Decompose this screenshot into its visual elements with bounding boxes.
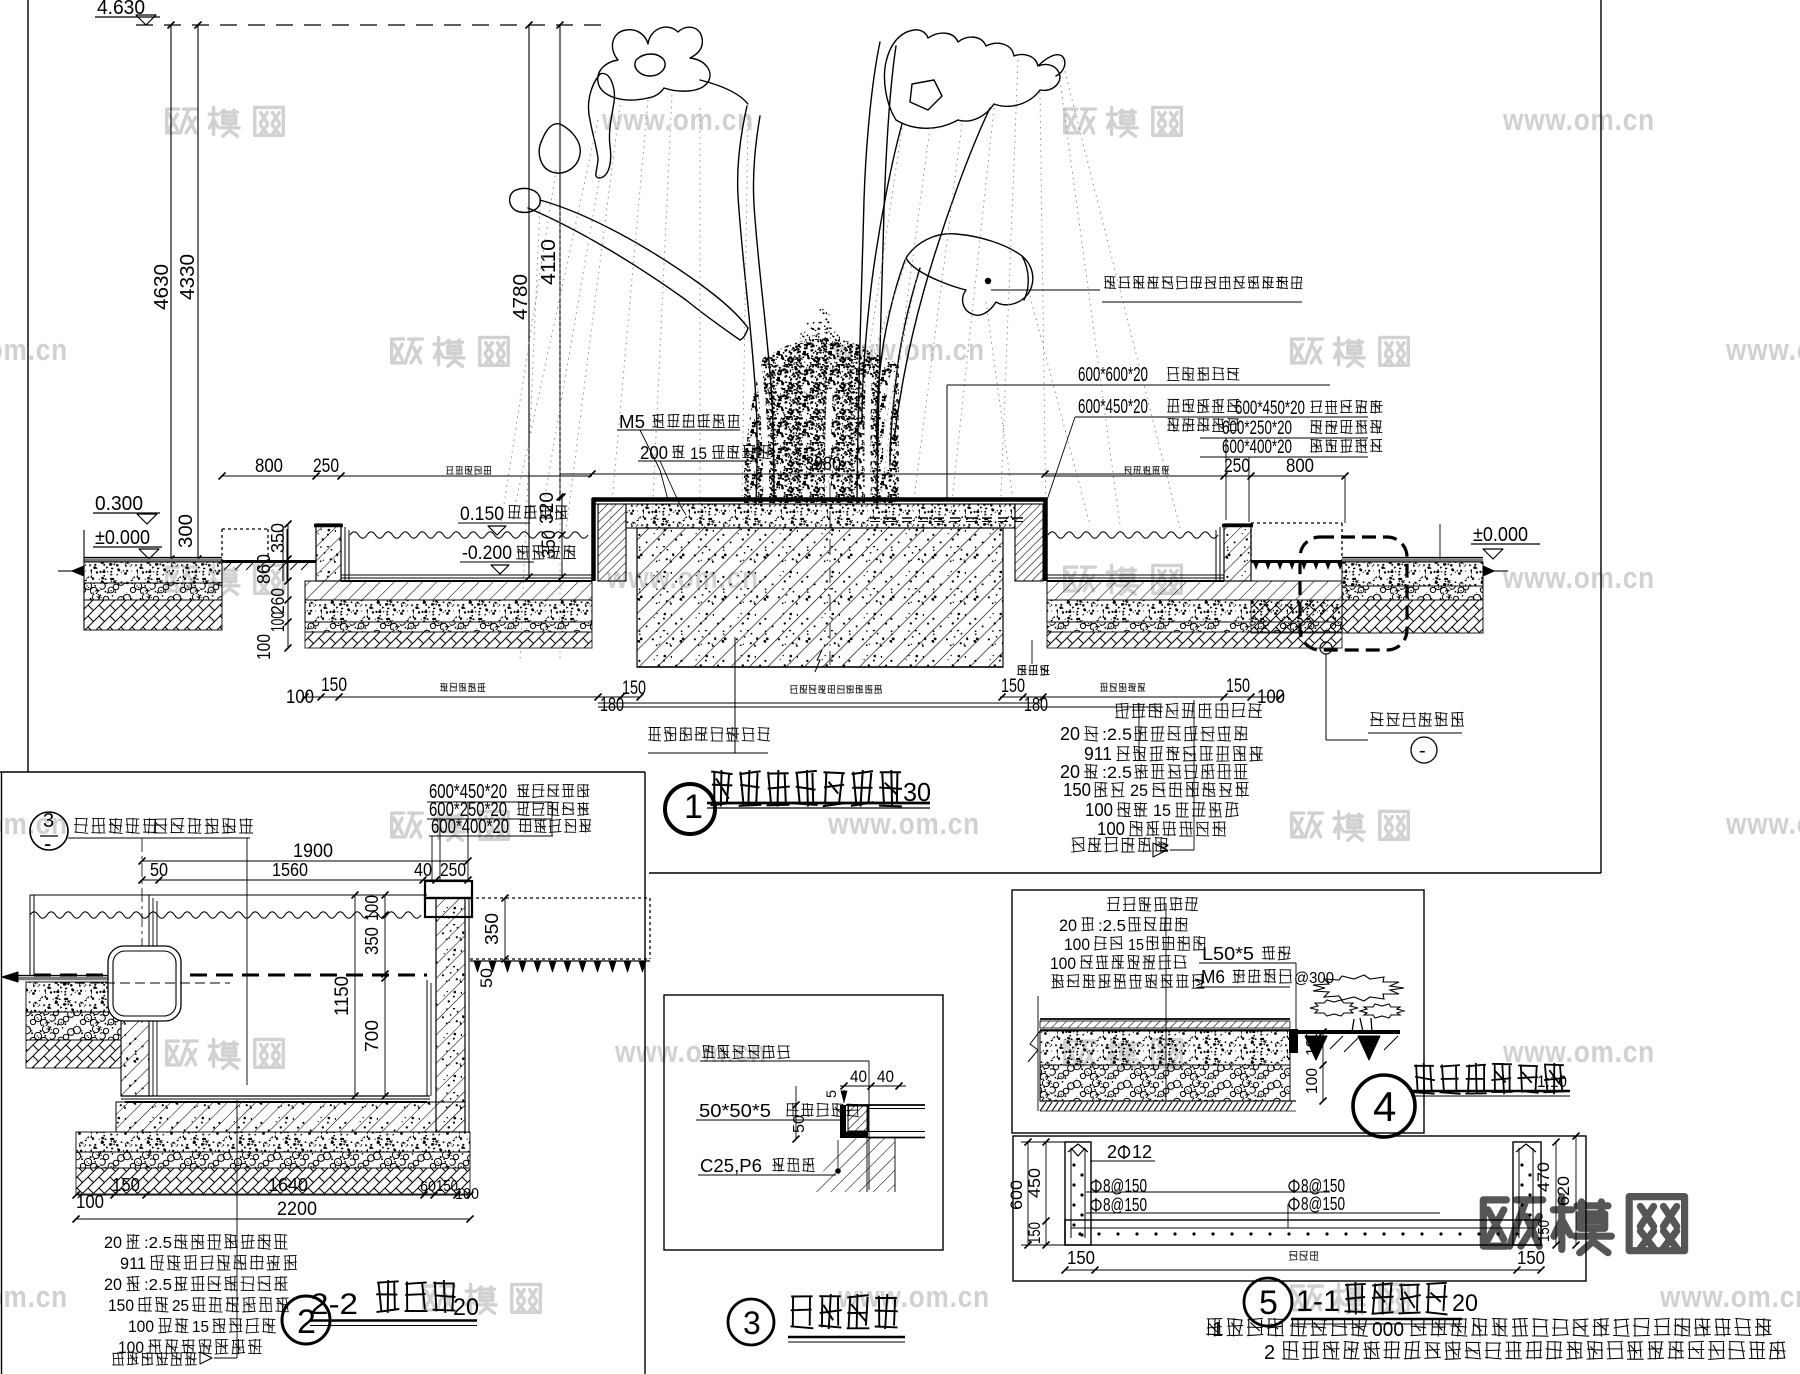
svg-text:5: 5 <box>1259 1284 1278 1322</box>
svg-text:20: 20 <box>104 1233 122 1252</box>
svg-text:350: 350 <box>362 927 382 955</box>
svg-text:150: 150 <box>1536 1220 1553 1242</box>
detail4 title <box>1353 1075 1415 1137</box>
svg-text:±0.000: ±0.000 <box>95 527 150 549</box>
dim line 250/800 right <box>1045 475 1345 477</box>
detail3 dim 50 <box>795 1086 797 1139</box>
svg-text:150: 150 <box>321 675 347 696</box>
detail4 ground right thick <box>1296 1030 1400 1034</box>
svg-text:2: 2 <box>1107 1142 1117 1162</box>
svg-text::2.5: :2.5 <box>1102 725 1132 744</box>
detail4 break symbol left <box>1028 1031 1040 1062</box>
svg-text:50: 50 <box>150 860 168 880</box>
svg-text:1900: 1900 <box>293 841 333 862</box>
svg-text:100: 100 <box>76 1192 104 1212</box>
svg-text:3: 3 <box>743 1305 761 1341</box>
top dashed reference line <box>136 24 606 26</box>
break symbol in mass <box>815 650 822 672</box>
svg-text:20: 20 <box>1452 1290 1478 1317</box>
water line left pool <box>350 532 588 538</box>
detail4 notes top-left <box>1107 897 1198 911</box>
left wing pool wall <box>316 524 341 581</box>
svg-text:4630: 4630 <box>151 264 173 310</box>
svg-text::2.5: :2.5 <box>144 1277 172 1294</box>
svg-text:60: 60 <box>420 1178 436 1195</box>
svg-text::2.5: :2.5 <box>1098 918 1126 935</box>
2-2 left wall hatch <box>121 982 149 1096</box>
svg-text:-0.200: -0.200 <box>462 543 512 564</box>
right pool floor <box>1047 574 1224 576</box>
svg-text:600*250*20: 600*250*20 <box>1222 418 1292 439</box>
svg-text:800: 800 <box>255 456 283 477</box>
svg-text:100: 100 <box>128 1317 154 1336</box>
svg-text:150: 150 <box>108 1296 134 1315</box>
bottom dim line main left <box>305 696 640 698</box>
svg-text:40: 40 <box>850 1067 867 1086</box>
svg-text:www.om.cn: www.om.cn <box>1659 1279 1800 1314</box>
svg-text:15: 15 <box>1153 801 1171 820</box>
left pavement cut arrow <box>58 570 72 572</box>
sculpture centerline <box>829 455 831 665</box>
right wing under-slab layers <box>1047 581 1342 600</box>
2-2 dim 1900 <box>142 860 468 862</box>
svg-text:600*600*20: 600*600*20 <box>1078 364 1148 386</box>
2-2 curb dims <box>504 898 506 959</box>
svg-text:1-1: 1-1 <box>1296 1285 1340 1318</box>
center platform rim <box>592 497 1047 502</box>
svg-text:www.om.cn: www.om.cn <box>601 102 754 137</box>
left wing pool waterproof lines <box>340 524 342 581</box>
projection dotted lines <box>500 60 1180 660</box>
svg-text:260: 260 <box>268 588 288 614</box>
right curb bottom edge <box>1251 560 1342 563</box>
left curb bottom edge and soil ticks <box>222 560 316 563</box>
dim label anping center-right <box>1124 466 1169 475</box>
svg-text:8@150: 8@150 <box>1301 1194 1345 1214</box>
svg-text:www.om.cn: www.om.cn <box>827 806 980 841</box>
2-2 leader dashdot centerline <box>141 838 143 1023</box>
svg-text:www.om.cn: www.om.cn <box>0 1279 68 1314</box>
platform bedding speckle layer <box>626 504 1015 528</box>
left buried stone curb dotted <box>222 528 268 530</box>
right pavement slab <box>1342 557 1483 559</box>
svg-text:15: 15 <box>1128 937 1144 954</box>
big logo watermark <box>1483 1200 1542 1246</box>
detail5 bottom slab <box>1065 1220 1541 1245</box>
2-2 cap stones <box>425 881 472 898</box>
svg-text:100: 100 <box>1064 935 1090 954</box>
detail5 U channel left wall <box>1065 1142 1091 1245</box>
svg-text::2.5: :2.5 <box>144 1235 172 1252</box>
svg-text:M6: M6 <box>1201 967 1225 987</box>
svg-text:150: 150 <box>1067 1248 1095 1268</box>
svg-text:1: 1 <box>684 788 703 826</box>
2-2 label jubu dayang & cover plate <box>74 818 157 834</box>
detail3 soil hatch <box>809 1138 895 1192</box>
svg-text:450: 450 <box>1025 1168 1044 1198</box>
vertical dim 320/350 left of platform <box>561 497 563 577</box>
svg-text:300: 300 <box>176 514 197 548</box>
detail4 leader vertical <box>1165 903 1167 1101</box>
svg-text:150: 150 <box>1063 780 1091 800</box>
platform left wall hatch <box>598 504 626 581</box>
dim line 3980 center <box>560 473 1160 475</box>
svg-text:1560: 1560 <box>272 860 308 880</box>
2-2 bottom dims <box>76 1194 470 1196</box>
water supply pipe label <box>1017 665 1049 676</box>
svg-text:15: 15 <box>690 444 707 463</box>
detail 5 frame <box>1013 1136 1586 1281</box>
svg-text:250: 250 <box>440 860 466 880</box>
svg-text:4780: 4780 <box>510 274 532 320</box>
svg-text:100: 100 <box>254 634 274 660</box>
svg-text:911: 911 <box>1084 744 1112 764</box>
detail3 title <box>728 1299 774 1345</box>
detail3 surface lines <box>846 1104 925 1106</box>
svg-text:L50*5: L50*5 <box>1202 944 1254 964</box>
svg-text:20: 20 <box>453 1294 479 1321</box>
svg-text:100: 100 <box>362 895 382 921</box>
svg-text:www.om.cn: www.om.cn <box>0 332 68 367</box>
svg-text::2.5: :2.5 <box>1102 763 1132 782</box>
svg-text:20: 20 <box>1060 762 1080 782</box>
2-2 left water edge <box>29 895 31 976</box>
platform core hatched mass <box>637 528 1003 667</box>
dim line 4330 <box>197 25 199 559</box>
svg-text:50*50*5: 50*50*5 <box>699 1101 771 1121</box>
2-2 dim row 50/1560/40/250 <box>142 879 468 881</box>
svg-text:40: 40 <box>414 860 432 880</box>
svg-text:100: 100 <box>455 1186 479 1203</box>
svg-text:C25,P6: C25,P6 <box>700 1156 762 1176</box>
svg-text:600*450*20: 600*450*20 <box>1235 398 1305 419</box>
svg-text:1640: 1640 <box>268 1175 308 1195</box>
svg-text:2200: 2200 <box>277 1199 317 1220</box>
detail4 dim 100/100 <box>1322 1032 1324 1101</box>
svg-text:1150: 1150 <box>332 976 353 1016</box>
svg-text:4330: 4330 <box>177 254 199 300</box>
2-2 deck line left <box>15 975 121 977</box>
svg-text:860: 860 <box>254 554 274 584</box>
right pavement cut arrow <box>1494 570 1508 572</box>
right buried stone curb dotted <box>1251 522 1342 524</box>
detail5 right dims <box>1555 1142 1557 1245</box>
detail4 grass tufts <box>1310 975 1404 1032</box>
detail5 phi8 labels center <box>1289 1181 1299 1191</box>
detail 3 frame <box>664 995 943 1250</box>
pool bottom construction notes <box>1115 703 1262 718</box>
2-2 pool top edge <box>30 894 427 896</box>
vertical dims left small stack <box>287 524 289 648</box>
svg-text:20: 20 <box>1059 916 1077 935</box>
svg-text:250: 250 <box>1224 456 1250 477</box>
2-2 deck dashed cut line <box>34 974 427 977</box>
svg-text:-: - <box>44 831 51 856</box>
arc-cut dashed line on platform <box>870 517 1023 519</box>
svg-text:911: 911 <box>120 1254 146 1273</box>
svg-text:8@150: 8@150 <box>1301 1176 1345 1196</box>
left pavement slab <box>84 557 222 559</box>
center mass bottom soil line <box>637 666 1003 668</box>
2-2 pavement layers left <box>26 982 121 1012</box>
general notes line1 <box>1206 1318 1283 1337</box>
2-2 water line <box>30 912 421 918</box>
svg-text:150: 150 <box>112 1175 140 1195</box>
dim line 4110 <box>559 25 561 497</box>
stone spec row3 600*250*20 <box>1167 418 1239 432</box>
leader finished sculpture note <box>985 278 991 284</box>
svg-text:600*450*20: 600*450*20 <box>1078 396 1148 418</box>
detail3 cover plate label <box>702 1045 790 1059</box>
2-2 floor slab and layers <box>116 1102 465 1132</box>
leader line under mass <box>598 706 1163 708</box>
bottom dim line platform <box>598 702 1040 704</box>
detail 4 frame <box>1012 890 1424 1133</box>
svg-text:150: 150 <box>1025 1222 1044 1244</box>
svg-text:5: 5 <box>823 1090 839 1098</box>
svg-text:100: 100 <box>1304 1030 1321 1056</box>
bottom dim line main right <box>1000 696 1280 698</box>
svg-text:0.150: 0.150 <box>460 504 504 525</box>
svg-text:15: 15 <box>192 1319 209 1336</box>
left wing under-slab layers <box>305 581 592 600</box>
detail4 soil wedges <box>1305 1036 1327 1060</box>
detail4 pavement section <box>1040 1018 1290 1020</box>
detail3 concrete block hatched <box>848 1106 868 1131</box>
svg-text:100: 100 <box>1097 819 1125 839</box>
svg-text:www.om.cn: www.om.cn <box>1502 102 1655 137</box>
platform right wall hatch <box>1015 504 1043 581</box>
2-2 pool floor <box>121 1095 430 1097</box>
main title circle 1 <box>665 784 715 834</box>
svg-text:1: 1 <box>1212 1319 1223 1341</box>
svg-text:250: 250 <box>313 456 339 477</box>
section 2-2 frame <box>0 771 645 773</box>
svg-text:470: 470 <box>1534 1162 1553 1192</box>
svg-text:100: 100 <box>1085 800 1113 820</box>
svg-text:2-2: 2-2 <box>310 1288 358 1321</box>
svg-text:100: 100 <box>268 612 288 632</box>
sculpture trunk stipple <box>744 339 899 503</box>
svg-text:150: 150 <box>622 678 646 699</box>
dim line 4630 <box>170 25 172 559</box>
dim line 800/250 left <box>222 475 592 477</box>
2-2 callout circle 3 <box>30 812 68 850</box>
svg-text:20: 20 <box>1060 724 1080 744</box>
svg-text:200: 200 <box>640 443 668 463</box>
svg-text:600: 600 <box>1007 1180 1026 1210</box>
svg-text:2: 2 <box>1264 1342 1275 1364</box>
detail3 dims 40 40 <box>840 1085 906 1087</box>
dim line 4780 <box>528 25 530 577</box>
svg-text:150: 150 <box>1226 676 1250 697</box>
svg-text:www.om.cn: www.om.cn <box>1725 806 1800 841</box>
svg-text:1:10: 1:10 <box>1537 1072 1567 1091</box>
svg-text:800: 800 <box>1286 456 1314 477</box>
svg-text:20: 20 <box>104 1275 122 1294</box>
svg-text:3980: 3980 <box>805 454 841 475</box>
svg-text:350: 350 <box>482 913 502 945</box>
svg-text:350: 350 <box>539 530 560 558</box>
sculpture splash outline group <box>510 27 1065 503</box>
svg-text:180: 180 <box>1024 695 1048 716</box>
svg-text:www.om.cn: www.om.cn <box>1502 560 1655 595</box>
2-2 manhole rounded cover <box>108 946 181 1021</box>
svg-text:12: 12 <box>1132 1142 1152 1162</box>
svg-text:50: 50 <box>477 968 496 988</box>
svg-text:50: 50 <box>791 1115 808 1133</box>
detail5 right wall <box>1513 1142 1541 1245</box>
detail3 steel angle <box>840 1105 846 1138</box>
svg-text:600*400*20: 600*400*20 <box>431 816 509 838</box>
2-2 right dotted curb <box>470 897 650 899</box>
svg-text:100: 100 <box>286 687 314 708</box>
dim label anping left <box>446 466 491 475</box>
svg-text:620: 620 <box>1554 1176 1573 1206</box>
svg-text:350: 350 <box>268 523 288 553</box>
2-2 vertical dims <box>354 895 356 1096</box>
detail5 bottom dim <box>1065 1269 1541 1271</box>
water line right pool <box>1048 532 1218 538</box>
soil under right curb <box>1251 600 1342 633</box>
svg-text:40: 40 <box>877 1067 894 1086</box>
svg-text:25: 25 <box>1130 781 1148 800</box>
svg-text:600*400*20: 600*400*20 <box>1222 437 1292 458</box>
svg-text:25: 25 <box>172 1298 189 1315</box>
svg-text:3: 3 <box>43 810 54 832</box>
stone edge leader from main <box>1300 537 1407 650</box>
sculpture trunk white stem gaps <box>758 362 894 503</box>
svg-text:4: 4 <box>1373 1083 1396 1130</box>
svg-text:100: 100 <box>1304 1068 1321 1094</box>
2-2 right wall <box>436 898 465 1132</box>
svg-text:0.300: 0.300 <box>95 493 143 515</box>
svg-text:M5: M5 <box>619 412 645 432</box>
detail5 left dims <box>1027 1142 1029 1245</box>
svg-text:±0.000: ±0.000 <box>1473 524 1528 546</box>
main title <box>711 770 903 807</box>
svg-text:100: 100 <box>1050 954 1076 973</box>
svg-text:www.om.cn: www.om.cn <box>1725 332 1800 367</box>
leader existing sculpture base <box>734 637 736 753</box>
main drawing frame <box>27 0 29 772</box>
detail5 title <box>1244 1278 1292 1326</box>
svg-text:www.om.cn: www.om.cn <box>614 1034 767 1069</box>
svg-text:700: 700 <box>362 1020 382 1052</box>
svg-text:180: 180 <box>600 695 624 716</box>
detail4 soil hatch row <box>1040 1100 1296 1102</box>
2-2 title <box>282 1296 330 1344</box>
right wing pool wall <box>1224 524 1251 581</box>
svg-text:-: - <box>1419 740 1426 762</box>
svg-text:150: 150 <box>1001 676 1025 697</box>
left pool floor <box>341 574 592 576</box>
svg-text:8@150: 8@150 <box>1103 1195 1147 1215</box>
detail4 angle steel at edge <box>1289 1029 1298 1053</box>
svg-text:000: 000 <box>1372 1319 1404 1341</box>
svg-text:150: 150 <box>1517 1248 1545 1268</box>
detail5 phi8 labels left <box>1091 1181 1101 1191</box>
2-2 soil triangles under curb <box>470 960 650 962</box>
svg-text:320: 320 <box>537 492 558 524</box>
svg-text:8@150: 8@150 <box>1103 1176 1147 1196</box>
svg-text:www.om.cn: www.om.cn <box>1502 1034 1655 1069</box>
